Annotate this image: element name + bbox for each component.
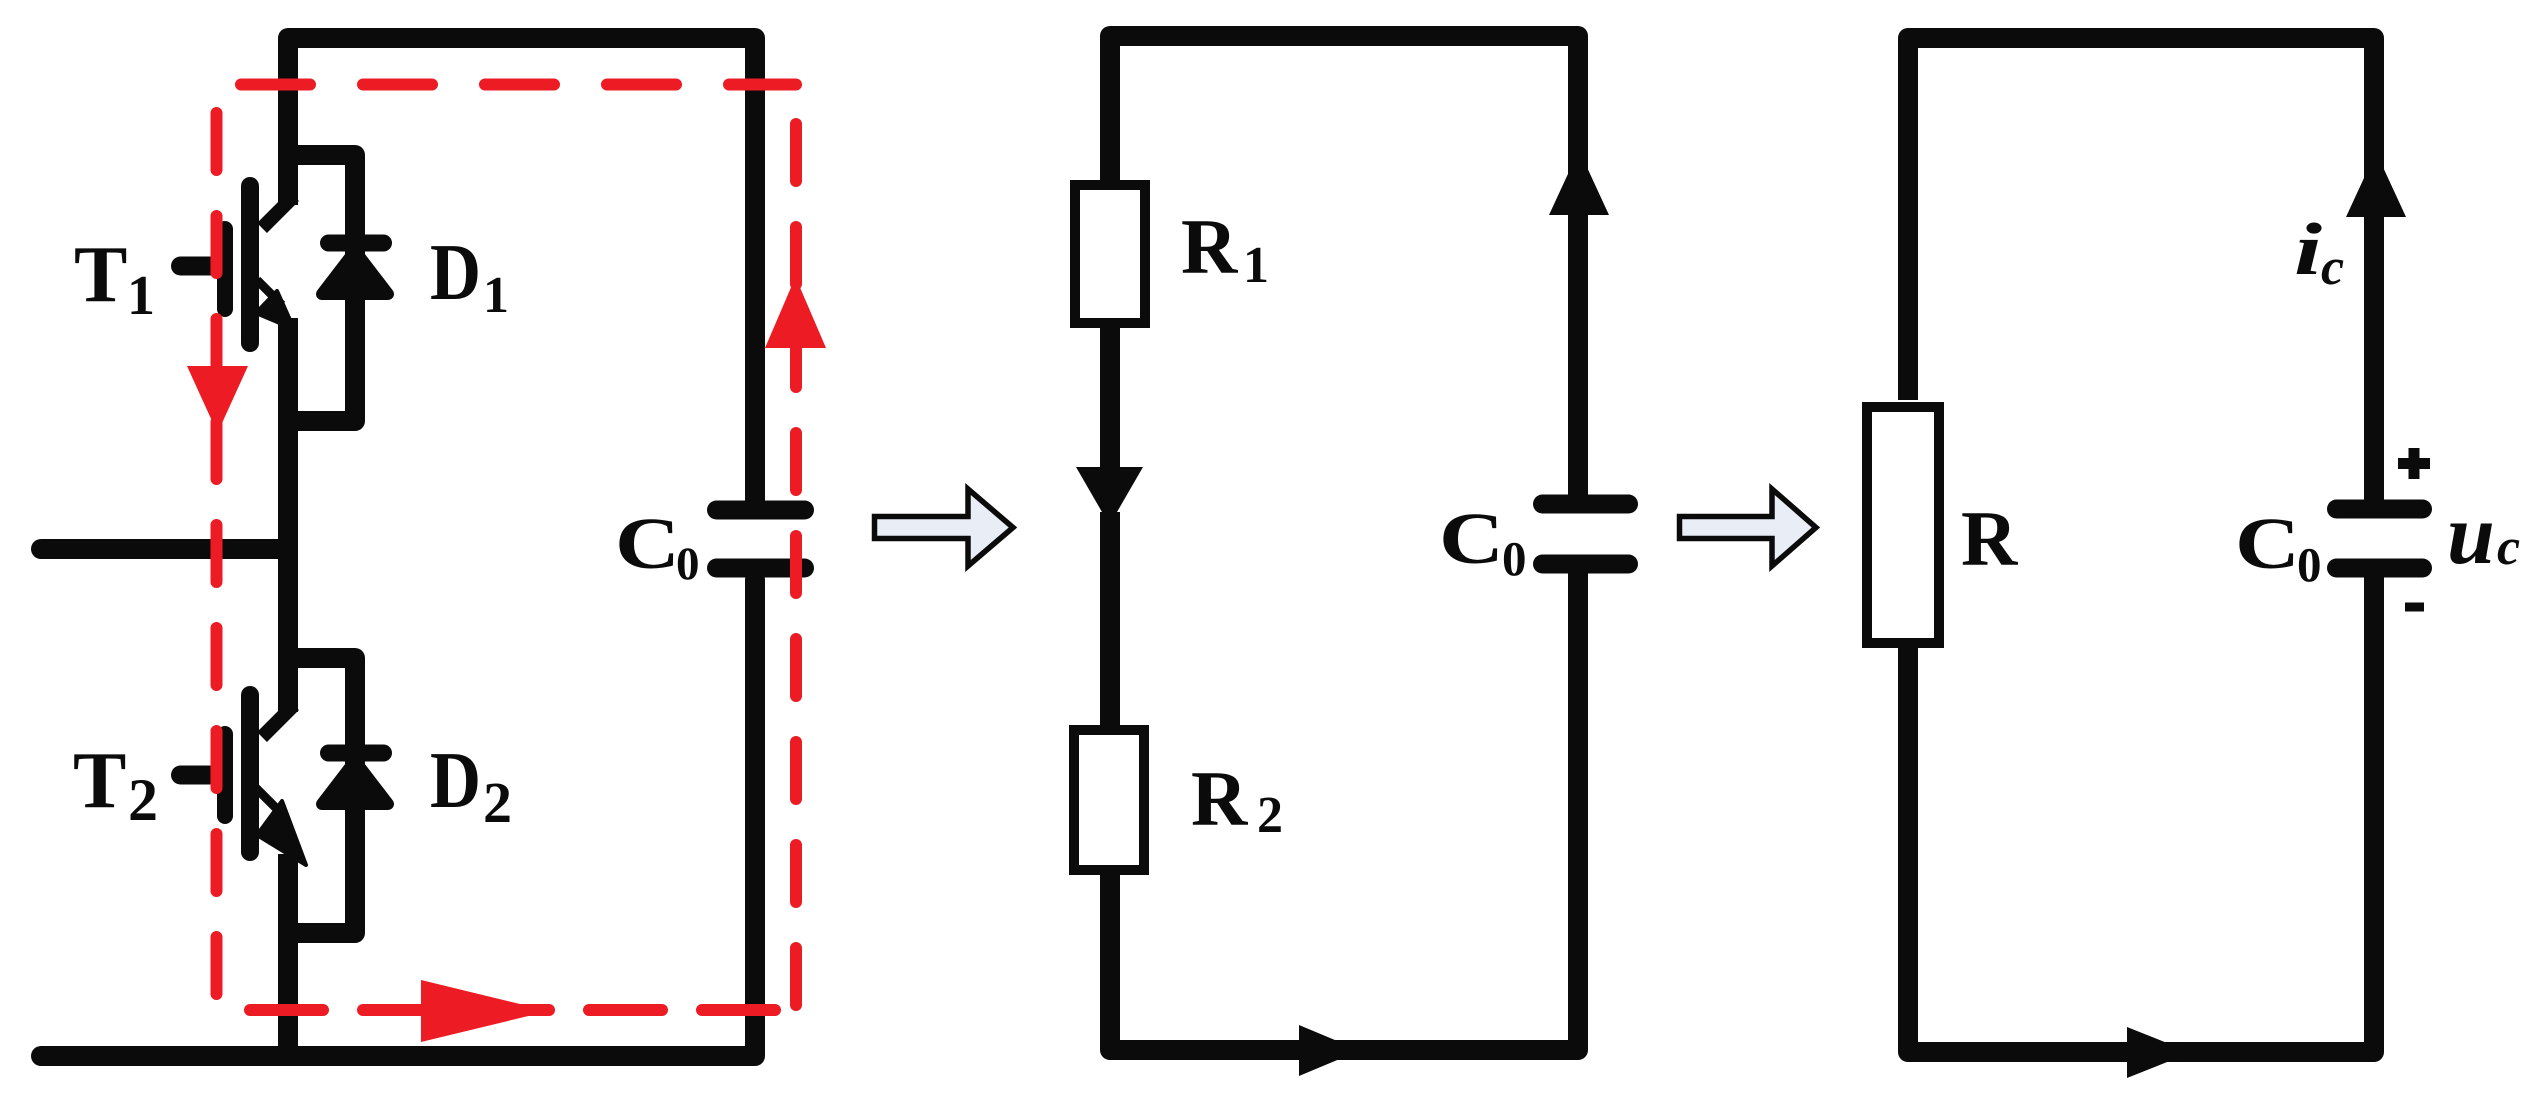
svg-text:R: R (1191, 755, 1249, 842)
svg-text:0: 0 (676, 538, 700, 590)
minus sign (2405, 603, 2424, 612)
block arrow 2 (1680, 489, 1817, 566)
svg-text:c: c (2497, 519, 2520, 576)
resistor R (1867, 407, 1939, 643)
resistor R2 (1074, 730, 1144, 870)
label R1 (1181, 203, 1269, 294)
wire right branch lower + bottom rail (left circuit) (41, 580, 755, 1056)
svg-text:0: 0 (1502, 531, 1527, 586)
wire left branch below T2 (278, 854, 298, 1056)
red dashed current loop right side (790, 85, 802, 1011)
svg-text:C: C (615, 503, 680, 584)
diode D2 branch wire (288, 658, 355, 933)
wire bottom + right lower (middle circuit) (1110, 572, 1578, 1050)
red arrow down (left branch of loop) (187, 366, 248, 433)
black arrow up (middle right branch) (1549, 150, 1609, 215)
plus sign (2398, 448, 2430, 479)
label T1 (74, 231, 155, 327)
block arrow 1 (875, 489, 1014, 566)
black arrow right (right circuit bottom rail) (2127, 1027, 2191, 1078)
IGBT T2 (181, 695, 307, 865)
svg-text:1: 1 (127, 265, 155, 327)
wire left branch between T1 and T2 (278, 318, 298, 712)
black arrow right (middle bottom rail) (1299, 1025, 1360, 1076)
wire top rail and upper branches (left circuit) (288, 38, 755, 505)
label T2 (73, 737, 158, 833)
svg-text:R: R (1181, 203, 1239, 290)
label i_c (2294, 209, 2344, 296)
svg-text:2: 2 (128, 767, 158, 833)
wire left branch segments (middle circuit) (1100, 326, 1120, 730)
svg-text:C: C (1439, 498, 1504, 579)
svg-text:2: 2 (483, 770, 512, 835)
svg-text:T: T (74, 231, 127, 319)
svg-text:R: R (1961, 495, 2019, 582)
wire bottom + lower branches (right circuit) (1908, 572, 2374, 1052)
svg-text:1: 1 (1243, 237, 1269, 294)
black arrow up (right circuit right branch) (2346, 152, 2406, 217)
svg-text:u: u (2447, 486, 2495, 582)
wire frame top (right circuit) (1908, 38, 2374, 500)
svg-text:C: C (2235, 503, 2300, 584)
diode D1 (322, 243, 388, 294)
svg-text:i: i (2294, 209, 2323, 291)
wire mid output node (41, 539, 288, 559)
capacitor C0 (left circuit) (717, 510, 805, 568)
svg-text:c: c (2321, 239, 2344, 296)
svg-text:D: D (430, 737, 481, 825)
diode D1 branch wire (288, 155, 355, 421)
label C0 (left circuit) (615, 503, 700, 590)
svg-text:0: 0 (2297, 537, 2322, 592)
black arrow down (middle left branch) (1076, 467, 1143, 525)
wire frame top (middle circuit) (1110, 36, 1578, 495)
label D2 (430, 737, 512, 835)
label u_c (2447, 486, 2520, 582)
IGBT T1 (181, 186, 295, 343)
svg-text:1: 1 (483, 267, 509, 324)
svg-text:T: T (73, 737, 126, 825)
svg-text:D: D (430, 229, 481, 317)
red dashed current loop bottom side (217, 1004, 797, 1016)
label C0 (middle circuit) (1439, 498, 1527, 586)
resistor R1 (1075, 185, 1145, 323)
label C0 (right circuit) (2235, 503, 2322, 592)
red arrow up (right branch of loop) (765, 277, 826, 348)
diode D2 (322, 753, 388, 804)
capacitor C0 (right circuit) (2337, 509, 2423, 568)
label R2 (1191, 755, 1283, 844)
capacitor C0 (middle circuit) (1543, 504, 1629, 564)
label D1 (430, 229, 509, 324)
red arrow right (bottom of loop) (421, 980, 549, 1042)
red dashed current loop top side (217, 79, 797, 91)
red dashed current loop left side (211, 85, 223, 1011)
svg-text:2: 2 (1257, 787, 1283, 844)
